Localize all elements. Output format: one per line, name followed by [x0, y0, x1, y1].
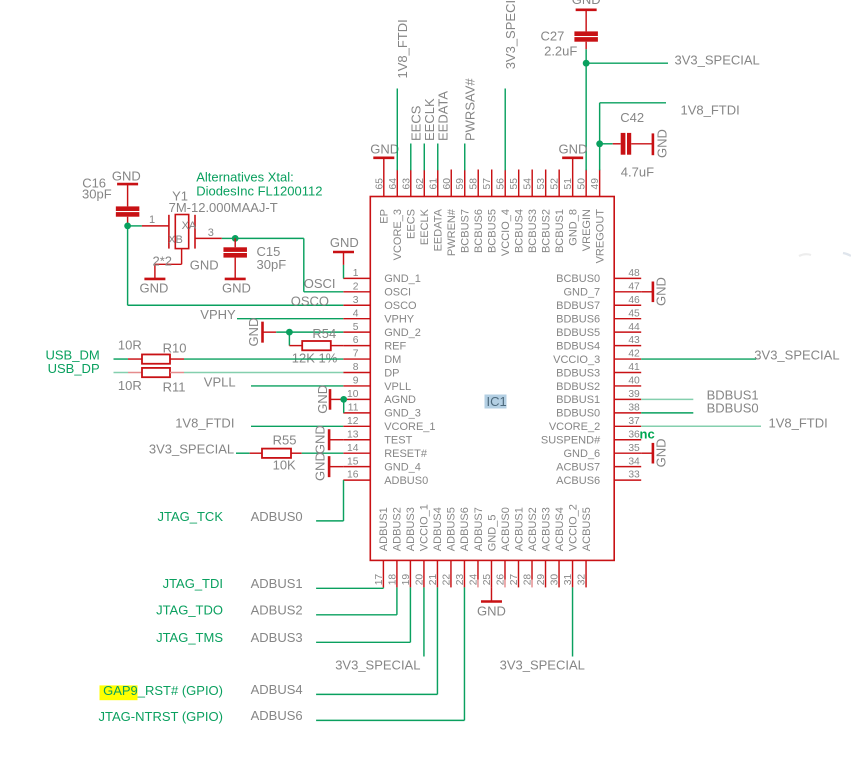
svg-text:10: 10	[347, 389, 359, 400]
svg-text:GND: GND	[112, 169, 141, 184]
svg-text:GND: GND	[190, 258, 219, 273]
svg-text:2*2: 2*2	[153, 254, 173, 269]
svg-text:nc: nc	[640, 426, 655, 441]
svg-text:42: 42	[628, 349, 640, 360]
svg-text:VCCIO_1: VCCIO_1	[419, 504, 431, 551]
svg-text:47: 47	[628, 281, 640, 292]
svg-text:GND: GND	[370, 141, 399, 156]
svg-text:BCBUS1: BCBUS1	[554, 209, 566, 253]
svg-text:GND: GND	[330, 235, 359, 250]
svg-text:GND: GND	[653, 277, 668, 306]
svg-text:44: 44	[628, 322, 640, 333]
svg-text:3: 3	[353, 295, 359, 306]
svg-text:21: 21	[428, 574, 439, 586]
svg-text:VREGIN: VREGIN	[581, 209, 593, 251]
svg-text:45: 45	[628, 308, 640, 319]
svg-text:4: 4	[353, 308, 359, 319]
svg-text:26: 26	[495, 574, 506, 586]
svg-text:DM: DM	[384, 354, 401, 366]
svg-text:ADBUS5: ADBUS5	[446, 507, 458, 551]
svg-text:ACBUS5: ACBUS5	[581, 507, 593, 551]
svg-text:VPHY: VPHY	[384, 314, 415, 326]
svg-text:JTAG_TMS: JTAG_TMS	[156, 630, 223, 645]
svg-text:53: 53	[536, 178, 547, 190]
svg-text:1V8_FTDI: 1V8_FTDI	[769, 416, 828, 431]
svg-text:2: 2	[353, 281, 359, 292]
svg-text:1V8_FTDI: 1V8_FTDI	[681, 103, 740, 118]
svg-text:BCBUS3: BCBUS3	[527, 209, 539, 253]
svg-text:GND_4: GND_4	[384, 461, 421, 473]
svg-text:OSCI: OSCI	[384, 287, 411, 299]
svg-text:GND_2: GND_2	[384, 327, 421, 339]
svg-text:3V3_SPECIAL: 3V3_SPECIAL	[500, 658, 585, 673]
svg-text:ADBUS1: ADBUS1	[378, 507, 390, 551]
svg-text:VCCIO_2: VCCIO_2	[567, 504, 579, 551]
svg-text:RESET#: RESET#	[384, 448, 428, 460]
svg-text:55: 55	[509, 178, 520, 190]
svg-text:GND: GND	[655, 129, 670, 158]
svg-text:VREGOUT: VREGOUT	[594, 209, 606, 264]
svg-text:GAP9_RST# (GPIO): GAP9_RST# (GPIO)	[103, 683, 223, 698]
svg-text:AGND: AGND	[384, 394, 416, 406]
svg-text:24: 24	[468, 574, 479, 586]
svg-text:51: 51	[563, 178, 574, 190]
svg-text:3V3_SPECIAL: 3V3_SPECIAL	[149, 442, 234, 457]
svg-text:50: 50	[577, 178, 588, 190]
svg-text:VPHY: VPHY	[200, 307, 236, 322]
svg-text:ACBUS4: ACBUS4	[554, 507, 566, 551]
svg-text:30pF: 30pF	[82, 186, 112, 201]
svg-text:22: 22	[441, 574, 452, 586]
svg-text:R55: R55	[273, 433, 297, 448]
svg-text:12K 1%: 12K 1%	[292, 350, 338, 365]
svg-text:14: 14	[347, 443, 359, 454]
svg-text:TEST: TEST	[384, 435, 412, 447]
svg-text:JTAG_TDO: JTAG_TDO	[156, 602, 223, 617]
svg-text:ADBUS0: ADBUS0	[384, 475, 428, 487]
svg-text:30pF: 30pF	[257, 257, 287, 272]
svg-text:OSCO: OSCO	[291, 294, 329, 309]
svg-text:GND: GND	[246, 318, 261, 347]
svg-text:DP: DP	[384, 367, 399, 379]
svg-text:GND: GND	[653, 439, 668, 468]
svg-text:56: 56	[496, 178, 507, 190]
svg-text:10R: 10R	[118, 338, 142, 353]
svg-text:1: 1	[149, 214, 155, 226]
svg-text:ADBUS4: ADBUS4	[432, 507, 444, 551]
svg-text:3V3_SPECIAL: 3V3_SPECIAL	[754, 347, 839, 362]
svg-text:61: 61	[428, 178, 439, 190]
svg-text:OSCO: OSCO	[384, 300, 417, 312]
svg-text:64: 64	[388, 178, 399, 190]
svg-text:BDBUS0: BDBUS0	[707, 401, 759, 416]
svg-text:11: 11	[348, 402, 359, 413]
svg-text:BDBUS4: BDBUS4	[556, 340, 600, 352]
svg-text:GND: GND	[222, 280, 251, 295]
svg-text:ADBUS2: ADBUS2	[251, 602, 303, 617]
svg-text:EEDATA: EEDATA	[436, 91, 451, 141]
svg-text:ADBUS2: ADBUS2	[392, 507, 404, 551]
svg-text:VPLL: VPLL	[204, 374, 236, 389]
svg-text:ADBUS4: ADBUS4	[251, 682, 303, 697]
svg-text:ACBUS0: ACBUS0	[500, 507, 512, 551]
svg-text:ACBUS1: ACBUS1	[513, 507, 525, 551]
svg-text:19: 19	[401, 574, 412, 586]
svg-text:JTAG_TCK: JTAG_TCK	[158, 509, 224, 524]
svg-text:2.2uF: 2.2uF	[544, 43, 577, 58]
svg-text:EP: EP	[379, 209, 391, 224]
svg-text:Alternatives Xtal:: Alternatives Xtal:	[196, 169, 294, 184]
svg-text:BCBUS2: BCBUS2	[540, 209, 552, 253]
svg-text:BDBUS0: BDBUS0	[556, 408, 600, 420]
svg-text:GND: GND	[559, 141, 588, 156]
svg-text:VCORE_2: VCORE_2	[549, 421, 600, 433]
svg-text:R54: R54	[312, 326, 336, 341]
svg-text:3: 3	[208, 227, 214, 239]
svg-text:BDBUS6: BDBUS6	[556, 314, 600, 326]
svg-text:7M-12.000MAAJ-T: 7M-12.000MAAJ-T	[169, 200, 278, 215]
svg-text:23: 23	[455, 574, 466, 586]
svg-text:32: 32	[577, 574, 588, 586]
svg-text:18: 18	[387, 574, 398, 586]
svg-text:JTAG-NTRST (GPIO): JTAG-NTRST (GPIO)	[99, 709, 223, 724]
svg-text:59: 59	[455, 178, 466, 190]
svg-text:ADBUS0: ADBUS0	[251, 509, 303, 524]
svg-text:63: 63	[401, 178, 412, 190]
svg-text:10R: 10R	[118, 378, 142, 393]
svg-text:31: 31	[563, 574, 574, 586]
svg-text:3V3_SPECIAL: 3V3_SPECIAL	[675, 52, 760, 67]
svg-text:38: 38	[628, 402, 640, 413]
svg-text:27: 27	[509, 574, 520, 586]
svg-text:17: 17	[374, 574, 385, 586]
svg-text:9: 9	[353, 376, 359, 387]
svg-text:R10: R10	[163, 340, 187, 355]
svg-text:GND_1: GND_1	[384, 273, 421, 285]
svg-text:62: 62	[415, 178, 426, 190]
svg-text:ACBUS2: ACBUS2	[527, 507, 539, 551]
svg-text:28: 28	[523, 574, 534, 586]
svg-text:OSCI: OSCI	[304, 276, 336, 291]
svg-text:ACBUS7: ACBUS7	[556, 461, 600, 473]
svg-text:VCCIO_4: VCCIO_4	[500, 209, 512, 256]
svg-text:BCBUS4: BCBUS4	[514, 209, 526, 253]
svg-text:4.7uF: 4.7uF	[621, 165, 654, 180]
svg-text:7: 7	[353, 349, 359, 360]
svg-text:EECS: EECS	[406, 209, 418, 239]
svg-text:ADBUS1: ADBUS1	[251, 576, 303, 591]
svg-text:EEDATA: EEDATA	[433, 208, 445, 251]
svg-text:USB_DP: USB_DP	[48, 361, 100, 376]
svg-text:VCORE_3: VCORE_3	[392, 209, 404, 260]
svg-text:VPLL: VPLL	[384, 381, 411, 393]
svg-text:SUSPEND#: SUSPEND#	[541, 435, 601, 447]
svg-text:BDBUS7: BDBUS7	[556, 300, 600, 312]
svg-text:48: 48	[628, 268, 640, 279]
svg-text:PWRSAV#: PWRSAV#	[463, 78, 478, 141]
svg-text:54: 54	[523, 178, 534, 190]
svg-text:43: 43	[628, 335, 640, 346]
svg-text:41: 41	[628, 362, 640, 373]
svg-text:40: 40	[628, 376, 640, 387]
svg-text:20: 20	[414, 574, 425, 586]
svg-text:JTAG_TDI: JTAG_TDI	[163, 576, 223, 591]
svg-text:46: 46	[628, 295, 640, 306]
svg-text:60: 60	[442, 178, 453, 190]
svg-text:1V8_FTDI: 1V8_FTDI	[175, 415, 234, 430]
svg-text:C27: C27	[541, 29, 565, 44]
svg-text:R11: R11	[163, 380, 186, 395]
svg-text:49: 49	[590, 178, 601, 190]
svg-text:29: 29	[536, 574, 547, 586]
svg-text:GND_8: GND_8	[567, 209, 579, 246]
svg-text:13: 13	[347, 429, 359, 440]
svg-text:34: 34	[628, 456, 640, 467]
svg-text:ADBUS6: ADBUS6	[251, 708, 303, 723]
svg-text:ADBUS3: ADBUS3	[405, 507, 417, 551]
svg-text:1: 1	[353, 268, 359, 279]
svg-text:C42: C42	[620, 110, 644, 125]
svg-text:GND: GND	[140, 280, 169, 295]
svg-text:35: 35	[628, 443, 640, 454]
svg-text:16: 16	[347, 470, 359, 481]
svg-text:GND_5: GND_5	[486, 515, 498, 552]
svg-text:PWREN#: PWREN#	[446, 208, 458, 256]
svg-text:GND_3: GND_3	[384, 408, 421, 420]
svg-text:GND: GND	[315, 385, 330, 414]
svg-text:BDBUS2: BDBUS2	[556, 381, 600, 393]
svg-text:ACBUS6: ACBUS6	[556, 475, 600, 487]
svg-text:BDBUS5: BDBUS5	[556, 327, 600, 339]
svg-text:REF: REF	[384, 340, 406, 352]
svg-text:25: 25	[482, 574, 493, 586]
svg-text:3V3_SPECIAL: 3V3_SPECIAL	[335, 658, 420, 673]
svg-text:8: 8	[353, 362, 359, 373]
svg-text:VCCIO_3: VCCIO_3	[553, 354, 600, 366]
svg-text:BDBUS3: BDBUS3	[556, 367, 600, 379]
svg-text:IC1: IC1	[487, 394, 507, 409]
svg-text:BCBUS7: BCBUS7	[460, 209, 472, 253]
svg-text:5: 5	[353, 322, 359, 333]
svg-text:GND_6: GND_6	[564, 448, 601, 460]
svg-text:52: 52	[550, 178, 561, 190]
svg-text:XB: XB	[168, 234, 183, 246]
svg-text:GND_7: GND_7	[564, 287, 601, 299]
svg-text:XA: XA	[182, 220, 197, 232]
svg-text:BCBUS6: BCBUS6	[473, 209, 485, 253]
svg-text:15: 15	[347, 456, 359, 467]
svg-text:6: 6	[353, 335, 359, 346]
svg-text:58: 58	[469, 178, 480, 190]
svg-text:EECLK: EECLK	[419, 208, 431, 245]
svg-text:BDBUS1: BDBUS1	[556, 394, 600, 406]
svg-text:DiodesInc FL1200112: DiodesInc FL1200112	[196, 184, 322, 199]
svg-text:1V8_FTDI: 1V8_FTDI	[395, 19, 410, 78]
svg-text:BCBUS5: BCBUS5	[487, 209, 499, 253]
svg-text:3V3_SPECIAL: 3V3_SPECIAL	[503, 0, 518, 69]
svg-text:BCBUS0: BCBUS0	[556, 273, 600, 285]
svg-text:GND: GND	[313, 425, 328, 454]
svg-text:GND: GND	[477, 604, 506, 619]
svg-text:GND: GND	[572, 0, 601, 7]
svg-text:12: 12	[347, 416, 359, 427]
svg-text:39: 39	[628, 389, 640, 400]
svg-text:30: 30	[550, 574, 561, 586]
svg-text:10K: 10K	[273, 458, 296, 473]
svg-text:57: 57	[482, 178, 493, 190]
svg-text:33: 33	[628, 470, 640, 481]
svg-text:36: 36	[628, 429, 640, 440]
svg-text:65: 65	[374, 178, 385, 190]
svg-text:ADBUS7: ADBUS7	[473, 507, 485, 551]
svg-text:37: 37	[628, 416, 640, 427]
svg-text:VCORE_1: VCORE_1	[384, 421, 435, 433]
svg-text:GND: GND	[313, 452, 328, 481]
svg-text:ADBUS3: ADBUS3	[251, 630, 303, 645]
svg-text:ADBUS6: ADBUS6	[459, 507, 471, 551]
svg-text:ACBUS3: ACBUS3	[540, 507, 552, 551]
